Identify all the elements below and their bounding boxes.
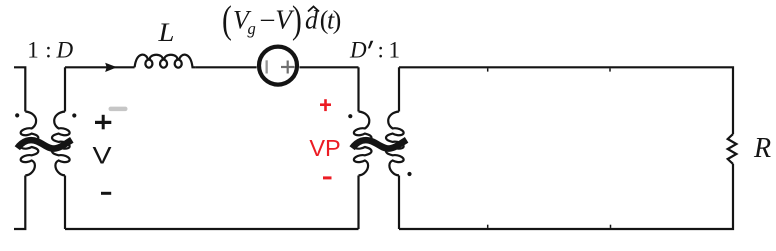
svg-text:1: 1: [389, 38, 401, 63]
svg-text:–: –: [260, 4, 275, 33]
svg-text:D: D: [349, 38, 367, 63]
svg-text:VP: VP: [309, 135, 340, 161]
svg-text:V: V: [92, 142, 111, 169]
svg-text:1:D: 1:D: [27, 38, 73, 63]
svg-text:L: L: [157, 18, 174, 47]
svg-text::: :: [378, 38, 384, 63]
svg-text:): ): [333, 6, 342, 35]
svg-text:g: g: [248, 19, 256, 38]
svg-text:R: R: [753, 133, 771, 164]
svg-text:(: (: [222, 0, 232, 42]
svg-text:): ): [292, 0, 302, 42]
